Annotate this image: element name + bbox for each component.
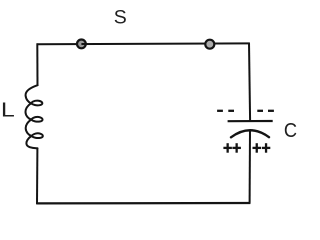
switch S terminal dot 2 — [205, 40, 214, 49]
positive charge plus 4 — [262, 143, 271, 153]
negative charge dash 1 — [217, 110, 223, 112]
svg-text:C: C — [284, 119, 297, 142]
wire left — [36, 43, 38, 85]
wire top — [37, 42, 250, 45]
negative charge dash 2 — [228, 110, 234, 112]
wire bottom — [36, 202, 250, 205]
negative charge dash 3 — [257, 110, 263, 112]
capacitor C bottom plate (curved) — [231, 130, 269, 137]
inductor L1 coil — [25, 85, 42, 148]
wire left lower — [36, 148, 38, 205]
positive charge plus 3 — [253, 143, 262, 153]
positive charge plus 1 — [223, 143, 232, 153]
svg-text:S: S — [114, 7, 127, 29]
positive charge plus 2 — [232, 143, 241, 153]
wire right upper (to capacitor top plate) — [249, 43, 250, 121]
capacitor C top plate — [228, 120, 273, 122]
wire right lower (from capacitor bottom plate) — [249, 130, 251, 204]
negative charge dash 4 — [268, 110, 274, 112]
svg-text:L: L — [1, 98, 15, 121]
switch dot 1 wire stub — [81, 43, 87, 45]
switch S terminal dot 1 — [77, 40, 86, 49]
